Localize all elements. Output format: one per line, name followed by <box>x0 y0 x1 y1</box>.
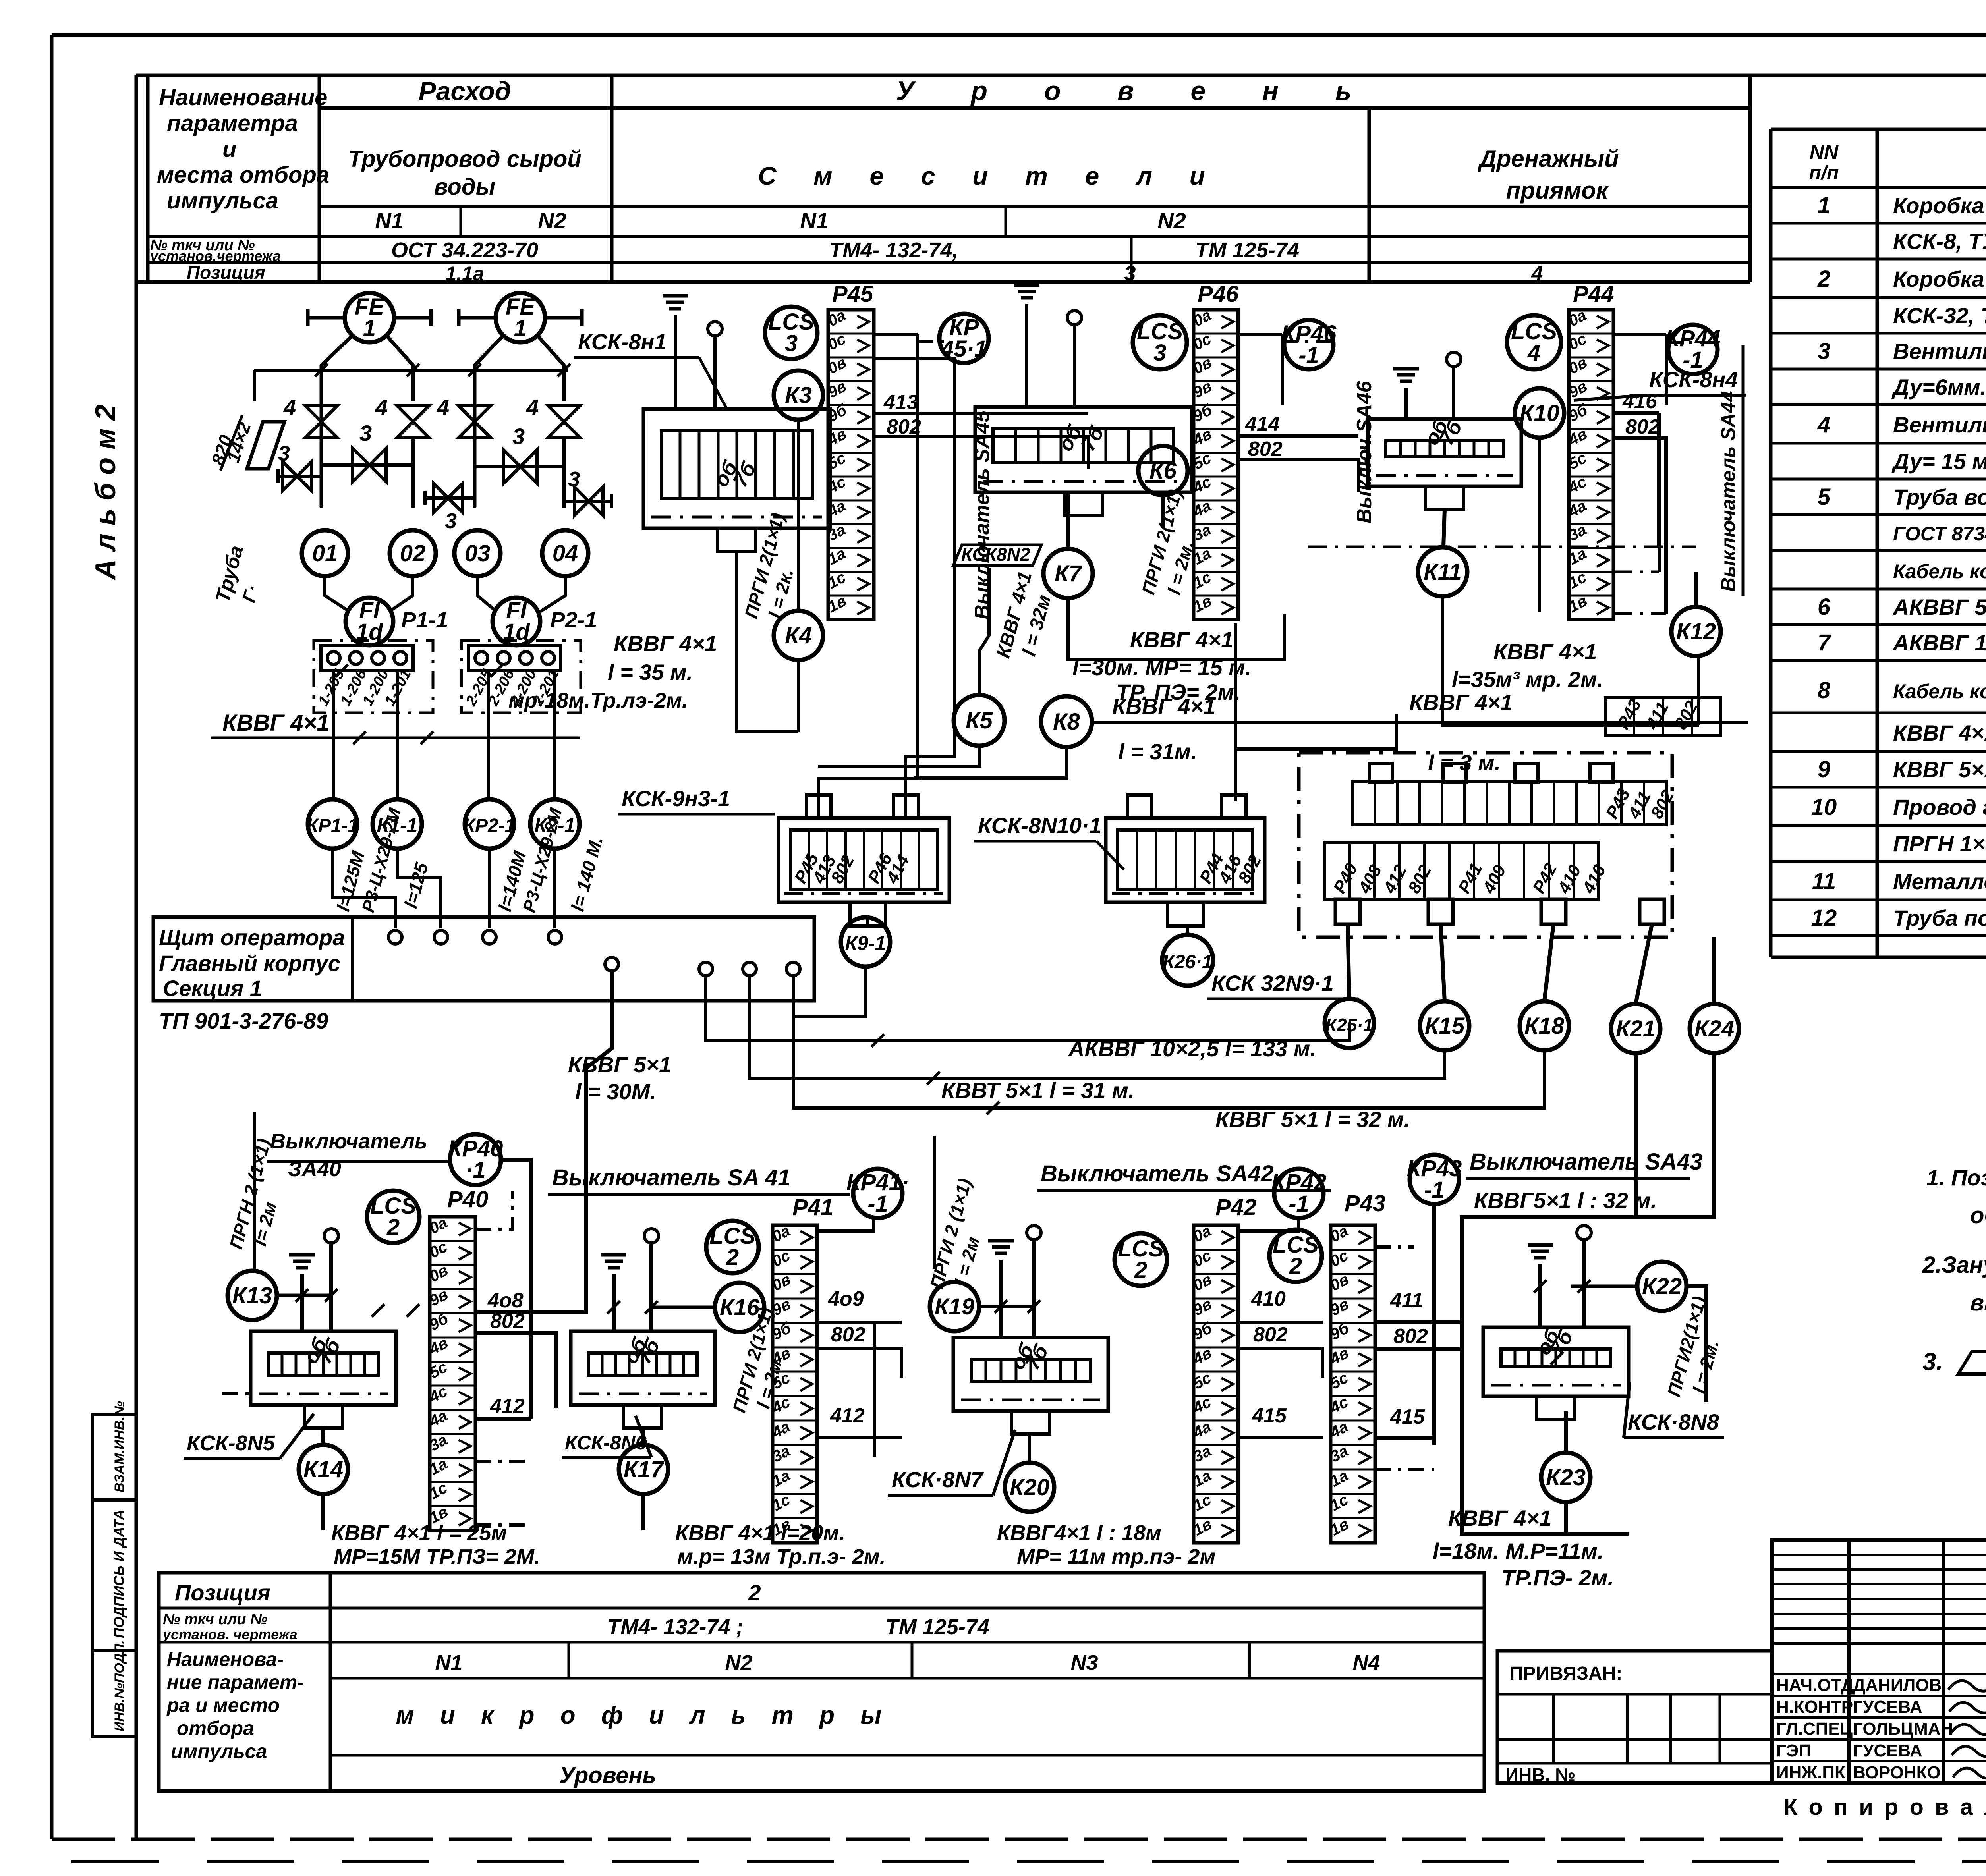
svg-text:l=18м. М.Р=11м.: l=18м. М.Р=11м. <box>1433 1538 1603 1563</box>
svg-text:Р2-1: Р2-1 <box>550 607 597 632</box>
svg-text:КСК-32, ТУ 36.1753: КСК-32, ТУ 36.1753 <box>1893 303 1986 328</box>
svg-text:А л ь б о м 2: А л ь б о м 2 <box>90 405 122 581</box>
junction box КСК-9Н3-1 <box>779 818 949 902</box>
valve stub right of leg4 <box>564 500 612 503</box>
svg-text:Р41: Р41 <box>792 1195 833 1220</box>
svg-text:п/п: п/п <box>1809 162 1839 184</box>
svg-text:К20: К20 <box>1010 1475 1049 1500</box>
wire К13 to risers <box>277 1294 331 1297</box>
svg-text:802: 802 <box>1253 1323 1288 1346</box>
svg-text:-1: -1 <box>1298 342 1319 368</box>
К9-1 connection <box>793 967 865 1017</box>
svg-text:КВВГ 4×1: КВВГ 4×1 <box>1112 694 1215 719</box>
svg-text:N4: N4 <box>1352 1651 1380 1675</box>
svg-text:1. Позиции приборов соответств: 1. Позиции приборов соответствуют специф… <box>1926 1165 1986 1190</box>
svg-text:К17: К17 <box>624 1457 665 1482</box>
svg-text:Металлорукав Р3-Ц-Х29: Металлорукав Р3-Ц-Х29 <box>1893 869 1986 894</box>
wire P46 down to КСК-8N10 <box>1234 623 1237 801</box>
ground symbol N5 <box>289 1253 315 1257</box>
svg-text:импульса: импульса <box>171 1740 267 1762</box>
svg-text:-1: -1 <box>1683 347 1703 373</box>
svg-text:3: 3 <box>512 424 525 449</box>
svg-text:ТР.ПЭ- 2м.: ТР.ПЭ- 2м. <box>1501 1565 1614 1590</box>
svg-text:параметра: параметра <box>167 110 298 136</box>
risers P41 <box>873 1322 876 1457</box>
svg-text:802: 802 <box>490 1310 525 1333</box>
circle К15 <box>1420 1001 1469 1050</box>
svg-text:ОСТ 34.223-70: ОСТ 34.223-70 <box>391 238 538 262</box>
circle LCS 2 (P41) <box>706 1221 759 1273</box>
title block signature rows <box>1772 1673 1986 1675</box>
svg-text:802: 802 <box>831 1323 865 1346</box>
wires P44 right <box>1613 333 1666 336</box>
svg-text:воды: воды <box>434 174 495 200</box>
svg-text:установ. чертежа: установ. чертежа <box>162 1626 298 1642</box>
circle LCS 3 (P46) <box>1133 315 1187 369</box>
wire К5 down <box>818 746 979 767</box>
svg-text:КСК-9н3-1: КСК-9н3-1 <box>622 786 730 811</box>
svg-text:Позиция: Позиция <box>175 1580 270 1605</box>
К21 drop cable <box>1634 1053 1638 1217</box>
svg-text:м.р= 13м Тр.п.э- 2м.: м.р= 13м Тр.п.э- 2м. <box>677 1545 886 1569</box>
circle КР2-1 <box>465 799 514 849</box>
dash-dot P40 bottom <box>475 1460 531 1463</box>
svg-text:3: 3 <box>359 421 372 446</box>
impulse legs from FE2 <box>475 336 503 507</box>
svg-text:АКВВГ 10×2,5 кв.мм.: АКВВГ 10×2,5 кв.мм. <box>1892 630 1986 655</box>
svg-text:КВВГ 4×1: КВВГ 4×1 <box>1448 1505 1551 1531</box>
svg-text:3: 3 <box>1124 262 1136 285</box>
svg-text:415: 415 <box>1390 1405 1425 1428</box>
circle К18 <box>1520 1001 1569 1050</box>
junction box КСК-8N8 <box>1483 1327 1629 1396</box>
cable from К7 down <box>1068 598 1285 659</box>
svg-text:К4: К4 <box>785 623 812 648</box>
sheet outer frame <box>52 33 1986 37</box>
svg-text:КВВГ 4×1: КВВГ 4×1 <box>1493 639 1597 664</box>
circle 01 <box>302 530 348 576</box>
svg-text:Выключатель SA42: Выключатель SA42 <box>1041 1161 1273 1187</box>
circle К9-1 drop <box>866 917 869 926</box>
svg-text:К10: К10 <box>1520 400 1559 426</box>
svg-text:ПОДПИСЬ И ДАТА: ПОДПИСЬ И ДАТА <box>111 1509 127 1638</box>
circle К26-1 <box>1162 935 1213 986</box>
circle К25-1 <box>1325 999 1374 1048</box>
valve stub of leg3 <box>425 496 475 500</box>
wire К16 to risers <box>651 1306 716 1309</box>
circle КР41-1 <box>853 1169 902 1218</box>
svg-text:КР2-1: КР2-1 <box>464 815 516 836</box>
svg-text:N2: N2 <box>725 1651 752 1675</box>
drop to К13 group <box>531 971 612 1312</box>
svg-text:Главный корпус: Главный корпус <box>159 951 340 976</box>
svg-text:1: 1 <box>1818 193 1830 218</box>
svg-text:Р40: Р40 <box>447 1187 488 1212</box>
title block grid <box>1772 1540 1986 1783</box>
circle К7 <box>1043 549 1093 598</box>
svg-text:ИНЖ.ПК: ИНЖ.ПК <box>1776 1763 1845 1782</box>
svg-text:К13: К13 <box>232 1283 272 1309</box>
small strip Р43 411 802 <box>1605 698 1721 735</box>
label КСК8N2 box <box>953 545 1041 566</box>
drops from relay circles to panel <box>332 849 395 928</box>
wires P46 right <box>1238 333 1282 336</box>
circle FI1 P1-1 <box>346 598 393 645</box>
svg-text:К24: К24 <box>1694 1016 1734 1042</box>
svg-text:ТМ 125-74: ТМ 125-74 <box>885 1615 989 1639</box>
legs to FI1 <box>325 576 350 612</box>
cable from box N1 down <box>737 551 798 732</box>
svg-text:КВВГ 4×1: КВВГ 4×1 <box>222 710 330 736</box>
svg-text:К21: К21 <box>1616 1016 1656 1042</box>
svg-text:оборудования АТХ.СО. Альбо: оборудования АТХ.СО. Альбом 3. <box>1970 1202 1986 1228</box>
svg-text:КВВГ 4×1: КВВГ 4×1 <box>614 631 717 656</box>
ground symbol N8 <box>1528 1243 1553 1247</box>
svg-text:КВВГ 5×1: КВВГ 5×1 <box>568 1052 671 1077</box>
wire box N2 to К7 <box>1066 492 1070 549</box>
svg-text:Ду=6мм.Ру=16кгс/см² 3в=2м.: Ду=6мм.Ру=16кгс/см² 3в=2м. <box>1891 374 1986 400</box>
circle КР46-1 <box>1284 320 1333 369</box>
svg-text:К19: К19 <box>935 1294 974 1320</box>
svg-text:ИНВ. №: ИНВ. № <box>1505 1764 1575 1785</box>
К23 to cable <box>1564 1502 1568 1534</box>
circle К5 <box>954 695 1005 746</box>
svg-text:Выключатель: Выключатель <box>270 1129 427 1153</box>
valve stub left of leg1 <box>278 475 321 478</box>
svg-text:ГУСЕВА: ГУСЕВА <box>1853 1741 1922 1760</box>
svg-text:416: 416 <box>1622 390 1658 413</box>
svg-text:К25·1: К25·1 <box>1325 1015 1373 1035</box>
wire К19 to risers <box>979 1305 1034 1308</box>
circle К20 <box>1005 1463 1054 1512</box>
svg-text:2.Зануление приборов, соедите: 2.Зануление приборов, соедительных короб… <box>1922 1252 1986 1278</box>
svg-text:мр-18м.Тр.лэ-2м.: мр-18м.Тр.лэ-2м. <box>508 689 688 712</box>
svg-text:КСК-8, ТУ 36. 1753.: КСК-8, ТУ 36. 1753. <box>1893 229 1986 254</box>
circle К3 <box>774 371 823 420</box>
svg-text:К14: К14 <box>303 1457 343 1482</box>
junction box КСК-8N1 <box>643 409 830 528</box>
svg-text:КВВГ4×1 l : 18м: КВВГ4×1 l : 18м <box>997 1521 1161 1545</box>
bottom table grid <box>159 1573 1484 1791</box>
circle К1-1 <box>373 799 422 849</box>
circle К9-1 <box>841 917 890 967</box>
svg-text:ГОЛЬЦМАН: ГОЛЬЦМАН <box>1853 1719 1953 1739</box>
svg-text:КСК·8N7: КСК·8N7 <box>892 1467 984 1492</box>
svg-text:МР= 11м тр.пэ- 2м: МР= 11м тр.пэ- 2м <box>1017 1545 1215 1569</box>
ground symbol N7 <box>988 1239 1014 1243</box>
svg-text:·1: ·1 <box>465 1157 486 1183</box>
svg-text:К18: К18 <box>1524 1013 1565 1039</box>
svg-text:8: 8 <box>1818 677 1831 703</box>
К24 drop cable loop <box>1462 1053 1714 1534</box>
svg-text:К8: К8 <box>1053 709 1080 735</box>
ground symbol N1 <box>663 294 688 298</box>
svg-text:Н.КОНТР: Н.КОНТР <box>1776 1697 1853 1717</box>
svg-text:КВВГ 4×1: КВВГ 4×1 <box>1130 627 1233 652</box>
circle LCS 2 (P42) <box>1115 1233 1167 1286</box>
svg-text:КВВГ 5×1 кв.мм.: КВВГ 5×1 кв.мм. <box>1893 757 1986 782</box>
svg-text:3: 3 <box>445 509 457 533</box>
circle К16 <box>715 1283 764 1332</box>
ground symbol N4 <box>1393 367 1419 371</box>
svg-text:К23: К23 <box>1546 1465 1586 1490</box>
valve between legs 3-4 <box>475 465 564 468</box>
circle К24 <box>1690 1004 1739 1053</box>
svg-text:НАЧ.ОТД: НАЧ.ОТД <box>1776 1675 1854 1695</box>
pressure terminal N8 <box>1577 1226 1591 1240</box>
svg-text:КВВГ 5×1 l = 32 м.: КВВГ 5×1 l = 32 м. <box>1215 1107 1410 1132</box>
svg-text:К11: К11 <box>1424 559 1462 585</box>
svg-text:1: 1 <box>363 315 376 341</box>
svg-text:4: 4 <box>375 395 388 420</box>
wires P45 right <box>874 333 918 336</box>
wire box N4 stub to К11 <box>1443 510 1445 547</box>
circle К17 <box>619 1445 668 1494</box>
svg-text:Труба полиэтиленовая 40×3: Труба полиэтиленовая 40×3 <box>1893 905 1986 930</box>
operator panel band <box>153 917 814 1001</box>
circle КР44-1 <box>1668 325 1717 374</box>
svg-text:413: 413 <box>883 391 918 414</box>
svg-text:412: 412 <box>830 1404 865 1427</box>
svg-text:Вентиль запорный муфтовый: Вентиль запорный муфтовый <box>1893 339 1986 364</box>
svg-text:Р44: Р44 <box>1573 281 1614 307</box>
svg-text:У р о в е н ь: У р о в е н ь <box>896 76 1376 106</box>
inner frame line left <box>135 75 138 1839</box>
svg-text:-1: -1 <box>1424 1177 1445 1203</box>
wire К22 to risers <box>1571 1285 1637 1288</box>
svg-text:ИНВ.№ПОДЛ.: ИНВ.№ПОДЛ. <box>112 1640 127 1731</box>
svg-text:КВВГ 4×1 кв.мм.: КВВГ 4×1 кв.мм. <box>1893 720 1986 745</box>
svg-text:4: 4 <box>283 395 296 420</box>
circle 03 <box>454 530 500 576</box>
svg-text:места отбора: места отбора <box>157 162 329 188</box>
big junction box КСК-32N9-1 <box>1299 753 1672 937</box>
svg-text:Дренажный: Дренажный <box>1477 145 1619 172</box>
pressure terminal N1 <box>708 322 722 336</box>
svg-text:Р46: Р46 <box>1198 281 1239 307</box>
valves type 4 <box>305 406 337 438</box>
svg-text:9: 9 <box>1818 757 1830 782</box>
svg-text:импульса: импульса <box>167 188 278 214</box>
svg-text:КВВТ 5×1 l = 31 м.: КВВТ 5×1 l = 31 м. <box>941 1078 1134 1103</box>
svg-text:отбора: отбора <box>177 1717 254 1739</box>
svg-text:2: 2 <box>1289 1253 1302 1279</box>
horizontal pipe line <box>254 369 568 372</box>
К22 right cable <box>1687 1286 1706 1402</box>
specification table grid <box>1771 128 1986 131</box>
svg-text:N1: N1 <box>800 208 829 233</box>
svg-text:414: 414 <box>1245 413 1280 436</box>
cable run К8 right <box>1091 721 1748 724</box>
svg-text:2: 2 <box>748 1580 761 1605</box>
svg-text:02: 02 <box>400 540 426 566</box>
valve between legs 1-2 <box>321 463 413 467</box>
svg-text:1,1а: 1,1а <box>445 262 484 285</box>
svg-text:4о9: 4о9 <box>828 1287 864 1310</box>
svg-text:ДАНИЛОВ: ДАНИЛОВ <box>1853 1675 1942 1695</box>
svg-text:802: 802 <box>887 415 921 438</box>
circle К21 <box>1611 1004 1660 1053</box>
svg-text:Наименование: Наименование <box>159 85 327 110</box>
svg-text:ПРИВЯЗАН:: ПРИВЯЗАН: <box>1509 1663 1622 1684</box>
svg-text:4: 4 <box>1817 412 1830 438</box>
circle К10 <box>1515 388 1564 438</box>
svg-text:КР1-1: КР1-1 <box>307 815 359 836</box>
svg-text:7: 7 <box>1818 630 1831 656</box>
svg-text:К5: К5 <box>966 708 993 733</box>
svg-text:ГЭП: ГЭП <box>1776 1741 1811 1760</box>
svg-text:2: 2 <box>1134 1257 1147 1283</box>
pressure terminal N5 <box>324 1229 338 1243</box>
svg-text:3: 3 <box>785 330 798 356</box>
svg-text:ТМ 125-74: ТМ 125-74 <box>1195 238 1299 262</box>
svg-text:ние парамет-: ние парамет- <box>167 1671 304 1693</box>
svg-text:Коробка соединительная: Коробка соединительная <box>1893 193 1986 218</box>
svg-text:802: 802 <box>1393 1325 1428 1348</box>
svg-text:Р43: Р43 <box>1345 1191 1385 1216</box>
svg-text:Выключатель SA 41: Выключатель SA 41 <box>552 1165 790 1191</box>
circle К14 <box>299 1445 348 1494</box>
panel terminals row1 <box>388 930 402 944</box>
svg-text:415: 415 <box>1252 1404 1287 1427</box>
svg-text:3: 3 <box>568 467 580 491</box>
wire К3-К4 <box>797 420 800 611</box>
junction box КСК-8N4 <box>1368 419 1521 486</box>
svg-text:КСК8N2: КСК8N2 <box>961 544 1030 565</box>
svg-text:Кабель контрольный ГОСТ 1508 -: Кабель контрольный ГОСТ 1508 -78 Е <box>1893 560 1986 583</box>
svg-text:К9-1: К9-1 <box>845 932 886 954</box>
svg-text:N2: N2 <box>538 208 566 233</box>
svg-text:Ду= 15 мм, 154 ВП2: Ду= 15 мм, 154 ВП2 <box>1891 449 1986 474</box>
svg-text:3: 3 <box>1818 338 1830 364</box>
svg-text:l = 35 м.: l = 35 м. <box>608 660 693 685</box>
svg-text:Провод гибкий с медной жилой: Провод гибкий с медной жилой <box>1893 795 1986 820</box>
svg-text:NN: NN <box>1810 141 1839 163</box>
circle 02 <box>390 530 436 576</box>
svg-text:411: 411 <box>1390 1289 1423 1312</box>
junction box КСК-8N5 <box>251 1331 396 1405</box>
svg-text:ВОРОНКО: ВОРОНКО <box>1853 1763 1941 1782</box>
svg-text:l=30м. МР= 15 м.: l=30м. МР= 15 м. <box>1072 655 1251 680</box>
circle КР45-1 <box>939 314 989 363</box>
circle К23 <box>1541 1453 1590 1502</box>
circle К8 <box>1041 696 1092 747</box>
circle КР1-1 <box>308 799 357 849</box>
svg-text:К3: К3 <box>785 382 812 408</box>
circle КР42-1 <box>1274 1169 1323 1218</box>
svg-text:КСК-8N10·1: КСК-8N10·1 <box>978 813 1101 838</box>
svg-text:КСК-8N5: КСК-8N5 <box>187 1431 275 1455</box>
circle К4 <box>774 611 823 660</box>
svg-text:ГУСЕВА: ГУСЕВА <box>1853 1697 1922 1717</box>
svg-text:4: 4 <box>1531 262 1543 285</box>
svg-text:КСК-8н1: КСК-8н1 <box>578 329 667 354</box>
circle К11 <box>1418 547 1467 596</box>
junction box КСК-8N2 <box>975 407 1192 492</box>
terminal strip P2-1 <box>469 645 561 671</box>
svg-text:ТП 901-3-276-89: ТП 901-3-276-89 <box>159 1008 328 1033</box>
junction box КСК-8N10-1 <box>1106 818 1265 902</box>
svg-text:Щит оператора: Щит оператора <box>159 925 345 950</box>
svg-text:ВЗАМ.ИНВ.№: ВЗАМ.ИНВ.№ <box>112 1401 127 1492</box>
svg-text:Наименова-: Наименова- <box>167 1648 284 1670</box>
circle 04 <box>542 530 588 576</box>
svg-text:ПРГН 1×1 кв.мм.: ПРГН 1×1 кв.мм. <box>1893 831 1986 856</box>
svg-text:К6: К6 <box>1149 458 1177 484</box>
circle LCS 2 (P40) <box>367 1191 419 1243</box>
svg-text:МР=15М ТР.ПЗ= 2М.: МР=15М ТР.ПЗ= 2М. <box>334 1545 540 1569</box>
wires P45 to КСК-9Н3 <box>818 405 918 819</box>
svg-text:АКВВГ 5×2.5 кв.мм.: АКВВГ 5×2.5 кв.мм. <box>1892 594 1986 620</box>
svg-text:6: 6 <box>1818 594 1831 620</box>
terminal strip P1-1 <box>321 645 413 671</box>
svg-text:4: 4 <box>526 395 539 420</box>
circle LCS 4 (P44) <box>1507 315 1561 369</box>
svg-text:11: 11 <box>1812 869 1836 894</box>
svg-text:3: 3 <box>278 442 290 465</box>
svg-text:Р42: Р42 <box>1215 1195 1256 1220</box>
wire КР41 to strip <box>817 1218 873 1231</box>
svg-text:Выключатель SA43: Выключатель SA43 <box>1470 1149 1702 1175</box>
panel terminals right group <box>699 962 713 976</box>
svg-text:Труба водогазопроводная: Труба водогазопроводная <box>1893 484 1986 510</box>
svg-text:410: 410 <box>1251 1287 1286 1310</box>
svg-text:К о п и р о в а л : Л о г и н: К о п и р о в а л : Л о г и н о в а <box>1783 1794 1986 1820</box>
ground symbol N2 <box>1014 284 1039 287</box>
svg-text:К22: К22 <box>1642 1274 1682 1299</box>
svg-text:12: 12 <box>1811 905 1837 931</box>
svg-text:Уровень: Уровень <box>559 1762 656 1788</box>
svg-text:установ.чертежа: установ.чертежа <box>149 248 281 264</box>
svg-text:Позиция: Позиция <box>187 262 265 283</box>
top header table grid <box>146 75 150 282</box>
pipe parallelogram symbol <box>247 422 284 469</box>
circle К6 <box>1138 446 1188 495</box>
svg-text:Выключ.SA46: Выключ.SA46 <box>1353 380 1376 523</box>
svg-text:К26·1: К26·1 <box>1163 952 1213 973</box>
svg-text:10: 10 <box>1811 794 1837 820</box>
svg-text:412: 412 <box>490 1395 525 1418</box>
svg-text:№ ткч или №: № ткч или № <box>163 1611 268 1628</box>
svg-text:2: 2 <box>726 1245 739 1270</box>
circle LCS 2 (P43) <box>1269 1229 1322 1282</box>
svg-text:выполнить согласно ПУЭ-85§1-: выполнить согласно ПУЭ-85§1- 7- 46. <box>1970 1290 1986 1316</box>
flow element FE2 <box>496 293 545 342</box>
svg-text:К7: К7 <box>1055 561 1083 587</box>
svg-text:N3: N3 <box>1070 1651 1098 1675</box>
привязан box <box>1497 1651 1772 1783</box>
circle К19 <box>930 1282 979 1331</box>
svg-text:3: 3 <box>1153 340 1166 366</box>
circle К22 <box>1637 1262 1687 1311</box>
svg-text:2: 2 <box>386 1214 400 1240</box>
svg-text:Коробка соединительная: Коробка соединительная <box>1893 266 1986 291</box>
svg-text:l = 31м.: l = 31м. <box>1118 739 1197 764</box>
КР43 drop riser <box>1432 1204 1436 1445</box>
junction box КСК-8N6 <box>571 1331 715 1405</box>
svg-text:ГЛ.СПЕЦ.: ГЛ.СПЕЦ. <box>1776 1719 1857 1739</box>
svg-text:КСК-8N6: КСК-8N6 <box>565 1432 647 1454</box>
svg-text:Р45: Р45 <box>832 281 873 307</box>
svg-text:802: 802 <box>1248 438 1283 461</box>
impulse legs from FE1 <box>321 336 352 507</box>
wire К6 down <box>1161 495 1165 528</box>
svg-text:1: 1 <box>514 315 527 341</box>
svg-text:КСК 32N9·1: КСК 32N9·1 <box>1211 971 1334 996</box>
svg-text:Кабель контрольный с медной жи: Кабель контрольный с медной жилой <box>1893 680 1986 703</box>
dash-dot P40 top <box>475 1191 512 1229</box>
svg-text:ра и место: ра и место <box>166 1694 280 1716</box>
